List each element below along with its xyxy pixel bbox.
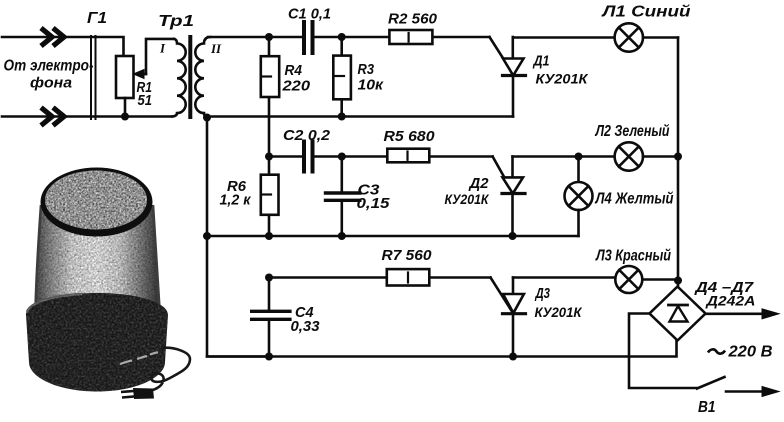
resistor R4 body [261, 56, 279, 97]
capacitor C4 top lead [268, 278, 271, 311]
capacitor C3 top lead [340, 157, 343, 193]
wire: lamp Л1 to right bus [643, 36, 678, 39]
resistor R7 power mark [407, 273, 409, 283]
resistor R3 leads [340, 37, 343, 117]
wire: bottom bus [207, 341, 677, 357]
thyristor Д1 cathode bar [503, 74, 526, 77]
resistor R4 leads [268, 37, 271, 157]
wire: top input from edge to R1 corner [2, 37, 124, 56]
switch В1 blade [697, 377, 725, 389]
lamp Л1 [615, 23, 643, 51]
resistor R2 body [389, 30, 432, 44]
potentiometer R1 wiper arrow [134, 70, 147, 79]
resistor R3 power mark [335, 75, 344, 77]
node: row5 bus junction [203, 232, 211, 240]
svg-text:Д3: Д3 [534, 285, 550, 302]
capacitor C3 bottom lead [340, 201, 343, 236]
svg-text:0,33: 0,33 [291, 319, 320, 335]
thyristor Д1 triangle [503, 59, 524, 76]
wire: Д1 anode to lamp Л1 [513, 36, 615, 39]
wire: bottom input from edge to transformer primary bottom [2, 115, 172, 118]
svg-text:Д1: Д1 [532, 53, 550, 70]
svg-text:Л2 Зеленый: Л2 Зеленый [595, 123, 670, 140]
svg-text:КУ201К: КУ201К [445, 192, 491, 207]
connector Г1 top arrow chevrons [41, 28, 64, 46]
wire: row3 C2-R5 rail [269, 155, 493, 158]
svg-text:Тр1: Тр1 [158, 13, 194, 30]
output arrow bottom head [762, 387, 779, 397]
thyristor Д3 cathode lead [512, 314, 515, 357]
svg-text:Д242А: Д242А [705, 293, 755, 309]
svg-text:фона: фона [30, 75, 72, 92]
resistor R6 leads [268, 157, 271, 237]
potentiometer R1 body [116, 56, 134, 98]
wire: secondary top rail [208, 36, 490, 39]
resistor R5 body [387, 149, 429, 163]
node: top rail R4 tap [265, 33, 273, 41]
resistor R6 body [261, 175, 279, 215]
lamp Л4 [565, 182, 593, 210]
svg-text:Л1 Синий: Л1 Синий [601, 4, 690, 21]
thyristor Д3 anode lead [512, 278, 515, 295]
svg-text:220 В: 220 В [727, 344, 772, 361]
thyristor Д3 triangle [503, 294, 524, 313]
svg-text:220: 220 [281, 78, 310, 95]
svg-text:R3: R3 [358, 61, 375, 78]
svg-text:Л3 Красный: Л3 Красный [595, 248, 671, 265]
node: row3 C3 junction [338, 153, 346, 161]
connector boundary double line [91, 36, 96, 119]
node: bottom bus C4 junction [265, 353, 273, 361]
node: Л4 tap junction [575, 153, 583, 161]
wire: left vertical bus [207, 118, 270, 357]
node: secondary bottom junction [203, 114, 211, 122]
bridge rectifier internal diode bar [669, 304, 688, 307]
lamp Л2 [615, 142, 643, 170]
thyristor Д2 cathode lead [511, 194, 514, 237]
thyristor Д3 gate diagonal [491, 278, 514, 314]
wire: row2 common from secondary to D1 cathode [207, 115, 513, 118]
node: row5 Д2 cathode junction [509, 232, 517, 240]
thyristor Д2 triangle [503, 177, 524, 193]
thyristor Д1 cathode lead [512, 76, 515, 117]
capacitor C4 bottom lead [268, 320, 271, 357]
wire: lamp Л2 to right bus [643, 155, 678, 158]
svg-text:C1 0,1: C1 0,1 [288, 6, 331, 23]
node: row6 left junction [265, 274, 273, 282]
node: R1 bottom junction [121, 113, 129, 121]
svg-text:II: II [210, 41, 222, 56]
resistor R4 power mark [262, 75, 271, 77]
svg-text:R4: R4 [285, 62, 303, 79]
thyristor Д2 gate diagonal [493, 157, 514, 194]
node: top rail R3 tap [338, 33, 346, 41]
svg-text:Г1: Г1 [87, 10, 107, 27]
lamp Л4 bottom lead [577, 210, 580, 236]
resistor R2 power mark [408, 33, 410, 42]
svg-text:C2 0,2: C2 0,2 [283, 127, 331, 144]
thyristor Д2 anode lead [511, 157, 514, 178]
bridge rectifier Д4-Д7 diamond [650, 287, 706, 341]
svg-text:10к: 10к [358, 77, 385, 94]
svg-text:I: I [159, 41, 166, 56]
svg-text:КУ201К: КУ201К [536, 72, 590, 87]
thyristor Д3 cathode bar [503, 312, 526, 315]
svg-text:R7 560: R7 560 [382, 247, 433, 264]
svg-text:1,2 к: 1,2 к [220, 193, 252, 209]
transformer Tr1 primary winding I [172, 39, 186, 117]
wire: Д2 anode to lamp Л2 [513, 155, 615, 158]
photo: power plug [121, 388, 154, 399]
svg-text:R5 680: R5 680 [384, 128, 436, 145]
wire: right vertical bus [677, 38, 680, 281]
label ~220 В tilde [708, 349, 725, 353]
photo: device cylinder body [36, 205, 160, 309]
capacitor C1 plates [304, 22, 313, 53]
node: row3 left junction [265, 153, 273, 161]
svg-text:КУ201К: КУ201К [535, 305, 584, 320]
capacitor C4 plates [252, 311, 290, 319]
photo: cylinder top rim [41, 168, 153, 237]
resistor R6 power mark [262, 193, 271, 195]
thyristor Д2 cathode bar [502, 192, 525, 195]
capacitor C2 plates [304, 142, 313, 172]
thyristor Д1 gate diagonal [490, 37, 514, 75]
node: bottom bus Д3 cathode junction [509, 353, 517, 361]
wire: bridge left vertex to switch [629, 314, 697, 389]
svg-text:Д2: Д2 [468, 175, 490, 192]
node: right bus Л2 junction [674, 153, 682, 161]
bridge rectifier Д4-Д7 top lead [677, 281, 680, 287]
svg-text:От электро-: От электро- [4, 58, 94, 75]
wire: row5 common rail [207, 235, 579, 238]
node: right bus bridge junction [674, 277, 682, 285]
transformer Tr1 secondary winding II [195, 37, 210, 118]
node: R3 bottom junction [338, 113, 346, 121]
node: row5 R6 junction [265, 232, 273, 240]
node: row5 C3 junction [338, 232, 346, 240]
photo: power cord [141, 348, 190, 393]
resistor R5 power mark [406, 152, 408, 160]
svg-text:В1: В1 [698, 399, 716, 416]
thyristor Д1 anode lead [511, 37, 514, 59]
svg-text:51: 51 [138, 93, 153, 109]
wire: row6 R7 rail [269, 276, 491, 279]
output arrow top head [762, 309, 779, 319]
capacitor C3 plates [326, 193, 360, 200]
wire: R1 wiper to primary top [146, 39, 174, 74]
bridge rectifier internal diode triangle [670, 306, 688, 322]
transformer core [188, 35, 192, 119]
lamp Л3 [615, 266, 642, 293]
wire: bridge right output [706, 312, 764, 315]
connector Г1 bottom arrow chevrons [41, 108, 64, 126]
wire: switch to bottom output arrow [726, 390, 763, 393]
wire: Д3 anode to lamp Л3 [513, 278, 678, 281]
svg-text:R2 560: R2 560 [388, 11, 438, 28]
lamp Л4 top lead [577, 157, 580, 183]
resistor R3 body [333, 56, 351, 100]
wire: R1 bottom lead [124, 98, 127, 117]
svg-text:Л4 Желтый: Л4 Желтый [595, 191, 674, 208]
svg-text:0,15: 0,15 [357, 196, 391, 212]
resistor R7 body [387, 269, 430, 285]
photo: device base [26, 293, 168, 392]
